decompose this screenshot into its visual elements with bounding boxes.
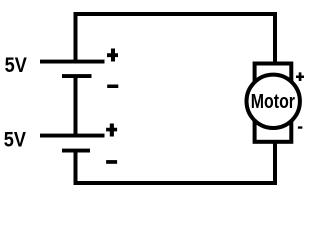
svg-text:Motor: Motor	[251, 91, 295, 113]
battery B2 negative plate (short)	[62, 149, 90, 153]
battery B1 positive plate (long)	[40, 60, 105, 64]
wire: lower-left vertical from battery B2 - plate down to bottom wire	[74, 151, 78, 186]
motor M1 body rectangle	[255, 64, 292, 142]
motor M1 rotor circle	[247, 75, 300, 128]
wire: left vertical from battery B1 + plate up to top-left corner	[74, 12, 78, 64]
wire: middle vertical from battery B1 - plate to battery B2 + plate	[74, 76, 78, 136]
polarity + terminal of motor	[296, 72, 304, 81]
svg-text:5V: 5V	[4, 128, 26, 151]
polarity - terminal of motor	[298, 126, 303, 128]
wire: top horizontal	[74, 12, 278, 16]
battery B1 negative plate (short)	[62, 74, 92, 78]
polarity + of battery B1	[107, 49, 118, 62]
polarity - of battery B1	[107, 85, 118, 89]
wire: right vertical from top wire down to motor terminal	[273, 12, 277, 65]
polarity - of battery B2	[106, 160, 117, 164]
wire: right vertical from motor bottom terminal down to bottom wire	[273, 141, 277, 185]
svg-text:5V: 5V	[5, 54, 27, 77]
battery B2 positive plate (long)	[40, 134, 105, 138]
polarity + of battery B2	[106, 124, 117, 137]
wire: bottom horizontal	[74, 181, 278, 185]
